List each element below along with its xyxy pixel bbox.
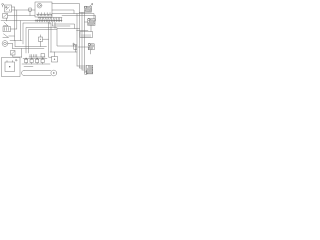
battery B1 cell <box>5 59 17 71</box>
ignition switch module U1 <box>35 2 52 17</box>
wire <box>85 71 87 73</box>
wire <box>25 28 27 53</box>
ammeter A1 <box>51 70 57 76</box>
wire <box>80 67 87 69</box>
wire <box>23 58 47 60</box>
fuel gauge G1 <box>52 57 58 63</box>
capacitor C1 <box>74 45 77 52</box>
wire <box>57 28 80 30</box>
safety switch C <box>36 58 39 64</box>
wire <box>11 28 17 30</box>
wire <box>13 48 45 50</box>
safety switch D <box>41 58 44 64</box>
PTO switch box SW1 <box>5 5 12 12</box>
ground switch SW5 <box>11 51 22 58</box>
ignition coil T1 <box>84 6 91 12</box>
wire <box>14 7 16 36</box>
wire <box>23 22 50 24</box>
regulator K3 <box>88 43 94 50</box>
connector comb J3 <box>29 54 45 58</box>
interlock module box U2 <box>57 29 72 47</box>
starter motor M2 <box>84 65 93 74</box>
headlight connector HL <box>2 3 4 7</box>
relay K1 <box>3 27 11 32</box>
right bus wire <box>79 13 81 69</box>
wire <box>52 14 77 67</box>
brake switch SW2 <box>3 14 8 19</box>
wire <box>8 43 13 45</box>
wire <box>50 51 77 53</box>
wire <box>53 25 71 27</box>
wire <box>12 6 15 8</box>
wire <box>6 18 8 21</box>
wire <box>14 41 16 47</box>
wire <box>52 4 80 13</box>
wire <box>90 25 92 31</box>
wire <box>9 36 15 41</box>
wire <box>82 69 86 71</box>
wire <box>77 14 94 19</box>
wire <box>20 21 22 41</box>
wire <box>8 15 35 17</box>
diode D1 <box>72 43 77 46</box>
wire <box>49 22 51 24</box>
lamp L1 <box>2 41 8 47</box>
wire <box>22 63 50 65</box>
wire <box>10 40 22 42</box>
clutch switch SW4 <box>3 34 9 38</box>
wire <box>80 12 85 14</box>
wire <box>54 24 75 29</box>
wire <box>49 22 52 57</box>
connector block J4 <box>80 32 93 38</box>
solenoid K2 <box>88 18 95 25</box>
wire <box>12 9 36 11</box>
wire <box>1 20 62 22</box>
wire <box>85 21 88 23</box>
wire <box>52 10 74 14</box>
wire <box>29 29 57 31</box>
safety switch A <box>25 58 28 64</box>
fuse F1 <box>29 8 31 16</box>
seat switch SW3 <box>3 22 8 26</box>
wire <box>78 46 88 48</box>
ground strap <box>22 71 52 76</box>
hour meter M1 <box>39 35 49 47</box>
wire <box>90 50 92 54</box>
wire <box>52 22 54 26</box>
wire <box>50 23 52 52</box>
connector comb J2 <box>35 20 62 22</box>
wire <box>24 66 33 68</box>
wire <box>22 23 24 44</box>
wire <box>28 30 30 53</box>
battery box B1 <box>2 58 21 77</box>
arrow callout <box>90 4 93 7</box>
wire <box>15 46 47 48</box>
wire <box>62 16 96 22</box>
wire <box>54 52 56 57</box>
wire <box>26 27 57 29</box>
wire <box>12 44 14 49</box>
safety switch B <box>30 58 33 64</box>
wire <box>21 49 23 58</box>
wire <box>54 22 56 29</box>
key switch terminals <box>37 13 52 16</box>
wire <box>77 65 86 67</box>
right bus wire <box>81 13 83 71</box>
right bus wire <box>84 13 86 73</box>
wire <box>16 10 18 29</box>
connector comb J1 <box>38 18 62 20</box>
wire <box>77 30 89 32</box>
